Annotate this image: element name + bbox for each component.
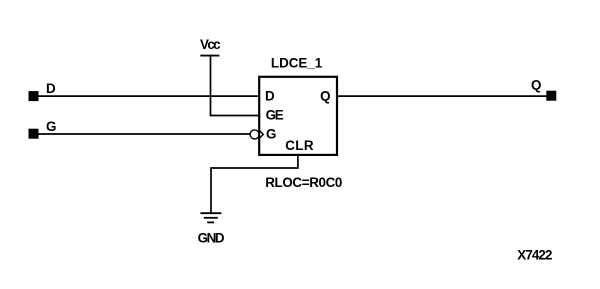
svg-text:LDCE_1: LDCE_1 — [271, 56, 323, 71]
svg-text:X7422: X7422 — [517, 247, 552, 262]
wire Q output — [336, 95, 547, 97]
terminal Q — [546, 91, 556, 101]
terminal G — [29, 129, 39, 139]
ground symbol — [198, 213, 225, 245]
svg-text:RLOC=R0C0: RLOC=R0C0 — [265, 175, 342, 190]
svg-text:GE: GE — [266, 107, 284, 122]
power symbol Vcc — [200, 37, 221, 56]
svg-text:D: D — [265, 88, 275, 103]
svg-text:Q: Q — [320, 88, 330, 103]
svg-text:CLR: CLR — [285, 138, 314, 153]
svg-text:GND: GND — [198, 230, 225, 245]
inversion bubble on G pin — [250, 130, 263, 139]
wire Vcc to GE pin — [211, 57, 261, 116]
wire D input — [38, 95, 260, 97]
wire CLR pin to ground — [211, 155, 298, 213]
svg-text:G: G — [46, 119, 56, 134]
svg-text:Q: Q — [531, 78, 541, 93]
svg-text:G: G — [266, 126, 276, 141]
svg-text:D: D — [46, 81, 56, 96]
terminal D — [29, 91, 39, 101]
wire G input — [38, 133, 250, 135]
svg-text:Vcc: Vcc — [200, 37, 221, 52]
latch U1 LDCE_1 body — [259, 77, 337, 155]
